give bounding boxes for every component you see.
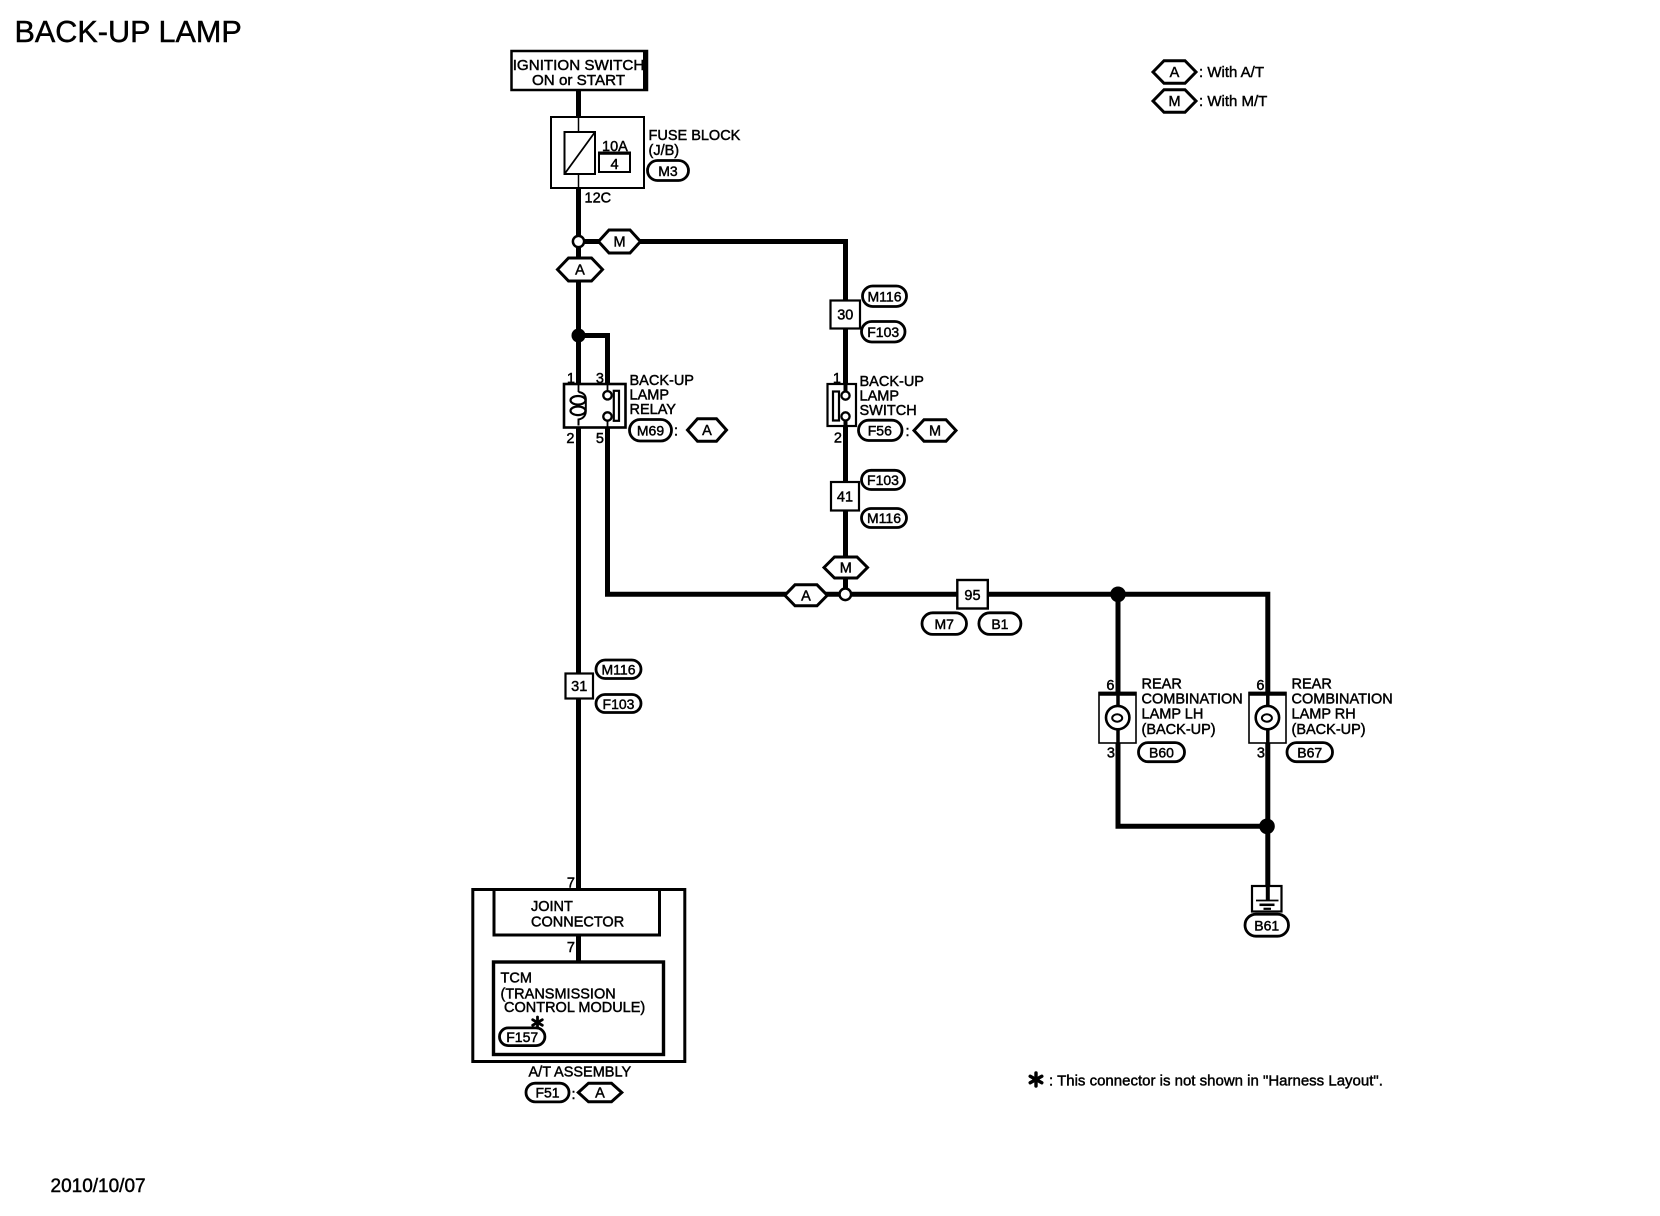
svg-text:F103: F103 [867,324,899,340]
svg-text::: : [572,1087,576,1103]
svg-text:M7: M7 [934,616,954,632]
svg-text:10A: 10A [602,139,628,155]
svg-text:3: 3 [596,371,604,387]
svg-text:95: 95 [964,588,980,604]
svg-text:2010/10/07: 2010/10/07 [51,1176,146,1197]
svg-text:A: A [801,589,811,605]
svg-text:F103: F103 [867,472,899,488]
svg-text:B61: B61 [1254,917,1279,933]
svg-text:2: 2 [834,431,842,447]
svg-text:A/T ASSEMBLY: A/T ASSEMBLY [529,1064,632,1080]
svg-text:6: 6 [1106,678,1114,694]
svg-text:A: A [702,423,712,439]
svg-text:REAR: REAR [1142,677,1182,693]
svg-text:7: 7 [567,940,575,956]
svg-text:A: A [1170,65,1180,81]
svg-text:(BACK-UP): (BACK-UP) [1142,722,1216,738]
svg-text:3: 3 [1257,745,1265,761]
svg-text:41: 41 [837,489,853,505]
svg-text:COMBINATION: COMBINATION [1142,692,1243,708]
svg-text:2: 2 [566,431,574,447]
svg-text:CONTROL MODULE): CONTROL MODULE) [504,1000,645,1016]
svg-text:A: A [575,263,585,279]
svg-text:BACK-UP LAMP: BACK-UP LAMP [15,15,242,49]
svg-text:M116: M116 [867,510,901,526]
svg-text:M69: M69 [637,422,664,438]
svg-text:M3: M3 [658,163,678,179]
svg-text:SWITCH: SWITCH [860,403,917,419]
svg-text:COMBINATION: COMBINATION [1292,692,1393,708]
svg-text:F103: F103 [603,696,635,712]
svg-text:31: 31 [571,679,587,695]
svg-text:12C: 12C [585,190,612,206]
svg-text:1: 1 [567,371,575,387]
svg-text:JOINT: JOINT [531,899,573,915]
svg-text:5: 5 [596,431,604,447]
svg-text:LAMP RH: LAMP RH [1292,707,1356,723]
svg-text:: With M/T: : With M/T [1199,93,1267,110]
svg-text:(BACK-UP): (BACK-UP) [1292,722,1366,738]
svg-text:LAMP LH: LAMP LH [1142,707,1204,723]
svg-text:F56: F56 [868,423,892,439]
svg-text:6: 6 [1256,678,1264,694]
svg-text:M116: M116 [602,662,636,678]
svg-text:(J/B): (J/B) [649,143,680,159]
svg-text:M: M [613,235,625,251]
svg-text:ON or START: ON or START [532,72,625,89]
svg-text:F51: F51 [535,1085,559,1101]
svg-text:REAR: REAR [1292,677,1332,693]
svg-text:M116: M116 [868,289,902,305]
svg-text:TCM: TCM [501,971,532,987]
svg-text:B60: B60 [1149,744,1174,760]
svg-text:B67: B67 [1297,744,1322,760]
svg-text:4: 4 [610,157,618,173]
svg-text::: : [674,424,678,440]
svg-text:A: A [595,1086,605,1102]
svg-text:1: 1 [833,371,841,387]
svg-text:F157: F157 [506,1029,538,1045]
svg-text:: With A/T: : With A/T [1199,64,1264,81]
svg-text:FUSE BLOCK: FUSE BLOCK [649,128,741,144]
svg-text:B1: B1 [991,616,1008,632]
svg-text:M: M [840,561,852,577]
svg-text:30: 30 [837,308,853,324]
svg-text:7: 7 [567,876,575,892]
svg-text:: This connector is not shown: : This connector is not shown in "Harnes… [1049,1073,1383,1090]
svg-text:M: M [1168,94,1180,110]
svg-text::: : [906,424,910,440]
svg-text:RELAY: RELAY [630,402,677,418]
svg-text:3: 3 [1107,745,1115,761]
svg-text:CONNECTOR: CONNECTOR [531,914,624,930]
svg-text:M: M [929,424,941,440]
